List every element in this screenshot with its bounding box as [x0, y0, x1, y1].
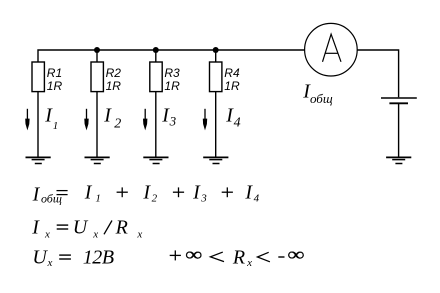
ground under R4: [203, 157, 228, 163]
formula line 1: Iobsh = I1 + I2 + I3 + I4: [32, 181, 260, 205]
svg-text:Ix: Ix: [31, 216, 50, 240]
battery B1 long plate: [381, 97, 417, 99]
battery B1 short plate: [389, 102, 408, 104]
current arrow I2: [84, 109, 88, 131]
svg-text:I4: I4: [244, 181, 259, 204]
svg-text:1R: 1R: [47, 79, 63, 93]
svg-text:R1: R1: [47, 66, 62, 80]
svg-text:∞: ∞: [288, 244, 305, 265]
svg-text:Rx: Rx: [115, 216, 143, 240]
svg-text:I1: I1: [84, 181, 101, 204]
node junction at R2: [94, 47, 100, 53]
current arrow I3: [143, 109, 147, 131]
svg-text:12В: 12В: [83, 246, 114, 268]
svg-text:1R: 1R: [106, 79, 122, 93]
current arrow I1: [25, 109, 29, 131]
resistor R1: [32, 62, 62, 93]
wire R2 upper lead: [96, 50, 98, 62]
current arrow I4: [203, 109, 207, 131]
svg-text:∞: ∞: [185, 244, 202, 265]
ground under battery: [386, 157, 411, 163]
ground under R2: [85, 157, 110, 163]
wire ammeter to battery corner: [357, 50, 398, 97]
formula line 2: Ix = Ux / Rx: [31, 216, 142, 240]
svg-text:I1: I1: [44, 104, 58, 132]
wire R1 lower lead: [37, 92, 39, 158]
wire R4 upper lead: [215, 50, 217, 62]
svg-text:Iобщ: Iобщ: [302, 81, 333, 106]
svg-text:1R: 1R: [224, 79, 240, 93]
ammeter letter A: [323, 34, 342, 62]
svg-text:I3: I3: [192, 181, 207, 204]
svg-text:I2: I2: [103, 104, 121, 131]
svg-text:Ux: Ux: [73, 216, 98, 240]
svg-text:R2: R2: [106, 66, 122, 80]
ground under R3: [143, 157, 168, 163]
svg-text:I4: I4: [225, 104, 240, 130]
wire top bus from R1 to ammeter: [38, 50, 305, 62]
resistor R4: [210, 62, 240, 93]
svg-text:R3: R3: [164, 66, 180, 80]
wire battery lower lead: [398, 104, 400, 157]
ammeter U1 circle: [305, 23, 358, 76]
svg-text:Ux: Ux: [32, 246, 52, 269]
formula line 3: Ux = 12V +inf < Rx < -inf: [32, 244, 304, 269]
resistor R3: [150, 62, 180, 93]
ground under R1: [26, 157, 51, 163]
wire R2 lower lead: [96, 92, 98, 158]
wire R3 lower lead: [155, 92, 157, 158]
svg-text:I2: I2: [142, 181, 157, 204]
node junction at R3: [153, 47, 159, 53]
wire R3 upper lead: [155, 50, 157, 62]
svg-text:R4: R4: [224, 66, 240, 80]
resistor R2: [91, 62, 121, 93]
svg-text:I3: I3: [161, 104, 176, 128]
svg-text:Rx: Rx: [232, 246, 252, 269]
node junction at R4: [213, 47, 219, 53]
wire R4 lower lead: [215, 92, 217, 158]
svg-text:1R: 1R: [164, 79, 180, 93]
